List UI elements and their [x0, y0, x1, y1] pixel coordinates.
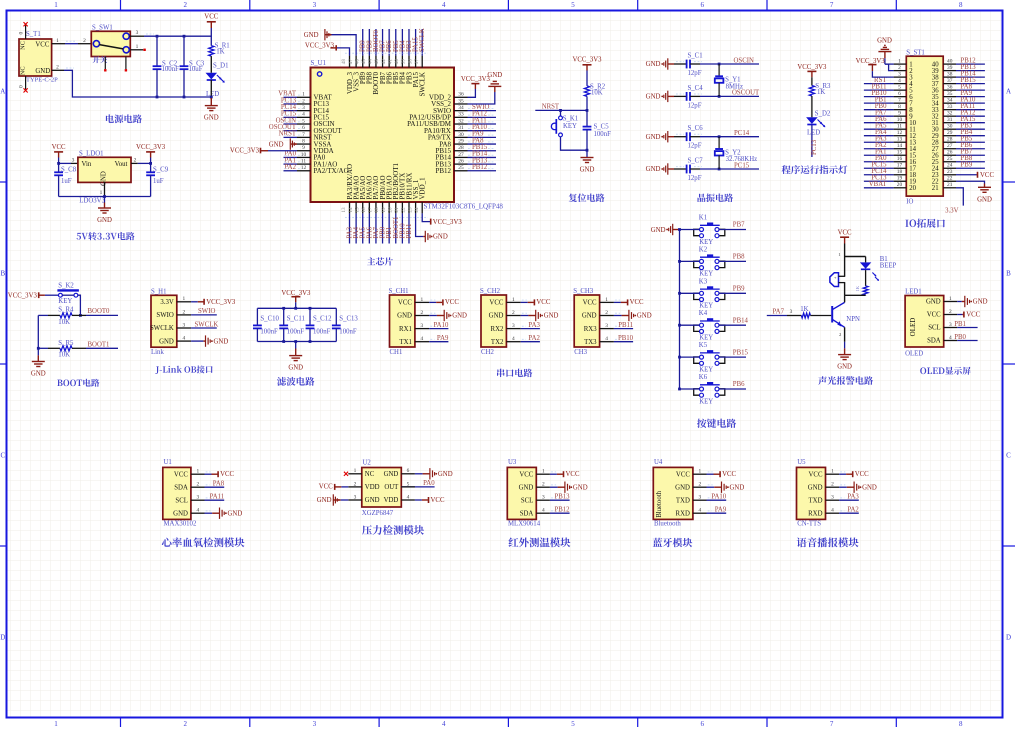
svg-text:40: 40 — [947, 59, 953, 65]
svg-text:GND: GND — [646, 94, 661, 101]
svg-text:39: 39 — [947, 65, 953, 71]
svg-text:PB7: PB7 — [733, 222, 745, 229]
svg-text:TXD: TXD — [809, 497, 823, 504]
svg-text:10K: 10K — [591, 89, 603, 96]
caption filter circuit — [277, 377, 314, 386]
filter rails — [257, 307, 336, 309]
svg-text:VCC: VCC — [519, 471, 533, 478]
S_CH1 pin4 PA9 — [429, 341, 448, 343]
module U3 MLX90614 — [507, 467, 536, 519]
svg-text:Vout: Vout — [115, 161, 128, 168]
svg-text:5: 5 — [571, 1, 575, 9]
svg-text:7: 7 — [898, 98, 901, 104]
emitter to ground — [844, 327, 846, 342]
caption IO expansion — [905, 219, 945, 228]
capacitor S_C10 100nF — [256, 308, 258, 325]
svg-text:NRST: NRST — [279, 131, 297, 138]
svg-text:100nF: 100nF — [339, 328, 357, 335]
svg-text:9: 9 — [898, 111, 901, 117]
svg-text:PA2/TX/AO: PA2/TX/AO — [314, 167, 349, 175]
connector S_CH1 — [390, 295, 415, 347]
svg-text:32.768KHz: 32.768KHz — [726, 156, 758, 163]
svg-text:K4: K4 — [699, 310, 708, 317]
svg-text:PA3: PA3 — [847, 494, 859, 501]
svg-text:S_C4: S_C4 — [688, 85, 704, 92]
svg-text:PA11: PA11 — [210, 494, 225, 501]
svg-text:1: 1 — [949, 296, 952, 302]
svg-text:5: 5 — [571, 720, 575, 727]
svg-text:S_ST1: S_ST1 — [906, 49, 925, 56]
svg-text:RX2: RX2 — [491, 326, 504, 333]
svg-text:1: 1 — [100, 190, 103, 196]
wire button to BOOT0 — [78, 295, 81, 315]
capacitor S_C7 12pF — [686, 165, 688, 174]
svg-text:4: 4 — [605, 336, 608, 342]
svg-text:VCC: VCC — [35, 42, 49, 49]
svg-text:VCC: VCC — [927, 312, 941, 319]
svg-text:3: 3 — [512, 323, 515, 329]
svg-text:RXD: RXD — [808, 510, 822, 517]
svg-text:6: 6 — [701, 720, 705, 727]
svg-text:SDA: SDA — [927, 338, 941, 345]
svg-text:GND: GND — [159, 338, 174, 345]
svg-text:SDA: SDA — [520, 510, 534, 517]
svg-text:PA7: PA7 — [773, 308, 785, 315]
svg-text:S_CH1: S_CH1 — [389, 288, 409, 295]
svg-text:VCC: VCC — [722, 471, 736, 478]
svg-text:GND: GND — [637, 313, 652, 320]
svg-text:4: 4 — [512, 336, 515, 342]
svg-text:GND: GND — [304, 32, 319, 39]
svg-text:7: 7 — [830, 1, 834, 9]
svg-text:29: 29 — [947, 130, 953, 136]
S_CH3 pin3 PB11 — [614, 328, 633, 330]
svg-text:PB9: PB9 — [733, 286, 745, 293]
svg-text:2: 2 — [83, 38, 86, 44]
caption 5V to 3.3V — [77, 232, 135, 240]
svg-text:100nF: 100nF — [287, 328, 305, 335]
svg-text:8: 8 — [959, 720, 963, 727]
svg-text:43: 43 — [374, 59, 380, 65]
svg-text:1: 1 — [542, 469, 545, 475]
caption bluetooth module — [653, 538, 693, 547]
svg-text:RX3: RX3 — [584, 326, 597, 333]
svg-text:2: 2 — [512, 310, 515, 316]
svg-text:13: 13 — [341, 207, 347, 213]
S_CH1 pin3 PA10 — [429, 328, 448, 330]
svg-text:2: 2 — [183, 720, 187, 727]
svg-text:2: 2 — [421, 310, 424, 316]
mcu pin47 VSS_3 ground — [332, 35, 357, 56]
mcu U1 STM32F103C8T6 — [311, 68, 455, 203]
svg-text:SWCLK: SWCLK — [419, 28, 426, 52]
svg-text:MAX30102: MAX30102 — [164, 521, 197, 528]
svg-text:KEY: KEY — [699, 239, 713, 246]
svg-text:8MHz: 8MHz — [726, 83, 743, 90]
svg-text:BOOT0: BOOT0 — [88, 308, 111, 315]
wire K3 to PB9 — [719, 292, 746, 294]
svg-text:U4: U4 — [654, 459, 663, 466]
S_CH2 pin4 PA2 — [521, 341, 540, 343]
svg-text:16: 16 — [897, 156, 903, 162]
wire button to bottom — [561, 137, 588, 150]
svg-text:GND: GND — [452, 313, 467, 320]
pushbutton S_K1 KEY — [560, 110, 562, 116]
wire T1 GND down to bottom rail — [52, 69, 64, 71]
svg-text:22: 22 — [401, 207, 407, 213]
svg-text:1uF: 1uF — [153, 178, 164, 185]
wire bus to K4 — [680, 324, 700, 326]
capacitor S_C3 10uF — [183, 36, 185, 66]
svg-text:100nF: 100nF — [313, 328, 331, 335]
svg-text:12: 12 — [897, 130, 903, 136]
svg-text:KEY: KEY — [699, 398, 713, 405]
svg-text:PB14: PB14 — [733, 317, 749, 324]
svg-text:GND: GND — [433, 234, 448, 241]
mcu pin23 VSS_1 ground — [416, 213, 424, 236]
resistor 1K base — [801, 313, 810, 318]
svg-text:8: 8 — [959, 1, 963, 9]
svg-text:GND: GND — [228, 510, 243, 517]
svg-text:1: 1 — [54, 720, 58, 727]
svg-text:PB9: PB9 — [961, 162, 973, 169]
svg-text:GND: GND — [31, 371, 46, 378]
svg-text:1: 1 — [136, 44, 139, 50]
svg-text:1: 1 — [197, 469, 200, 475]
ground GND crystal row — [667, 131, 669, 142]
svg-text:VCC: VCC — [489, 300, 503, 307]
svg-text:3: 3 — [197, 495, 200, 501]
svg-text:OUT: OUT — [384, 484, 399, 491]
ground GND keys — [672, 224, 674, 235]
svg-text:VCC_3V3: VCC_3V3 — [8, 292, 38, 299]
svg-text:23: 23 — [407, 207, 413, 213]
svg-text:BOOT1: BOOT1 — [88, 341, 110, 348]
svg-text:24: 24 — [947, 163, 953, 169]
svg-text:S_D2: S_D2 — [815, 111, 831, 118]
svg-text:20: 20 — [909, 185, 916, 192]
svg-text:GND: GND — [519, 484, 534, 491]
mcu pin48 VDD_3 power — [337, 48, 350, 56]
svg-text:21: 21 — [394, 207, 400, 213]
crystal S_Y2 32.768KHz — [718, 137, 720, 149]
resistor S_R4 10K — [38, 314, 48, 316]
svg-text:2: 2 — [949, 309, 952, 315]
svg-text:CH1: CH1 — [390, 349, 403, 356]
svg-text:10: 10 — [897, 117, 903, 123]
U2 pin1 NC — [348, 473, 362, 475]
svg-text:GND: GND — [646, 134, 661, 141]
svg-text:33: 33 — [947, 104, 953, 110]
svg-text:19: 19 — [897, 176, 903, 182]
svg-text:KEY: KEY — [699, 366, 713, 373]
svg-text:2: 2 — [183, 1, 187, 9]
svg-text:12pF: 12pF — [688, 143, 702, 150]
svg-text:VCC_3V3: VCC_3V3 — [136, 144, 166, 151]
capacitor S_C2 100nF — [156, 36, 158, 66]
svg-text:+: + — [834, 275, 837, 280]
wire bus to K3 — [680, 292, 700, 294]
svg-text:1K: 1K — [216, 48, 224, 55]
U2 pin6 GND — [401, 473, 415, 475]
wire LED to PC13 — [811, 125, 813, 158]
svg-text:VCC: VCC — [445, 299, 459, 306]
caption infrared module — [509, 537, 571, 547]
dashed marks top pins — [345, 52, 428, 54]
svg-text:4: 4 — [197, 508, 200, 514]
svg-text:45: 45 — [361, 59, 367, 65]
svg-text:S_CH3: S_CH3 — [573, 288, 594, 295]
header pin22 GND — [956, 181, 985, 183]
svg-text:VCC_3V3: VCC_3V3 — [461, 76, 491, 83]
svg-text:1uF: 1uF — [61, 178, 72, 185]
svg-text:K5: K5 — [699, 342, 708, 349]
svg-text:SCL: SCL — [928, 325, 940, 332]
svg-text:GND: GND — [646, 61, 661, 68]
bottom rail of LDO — [59, 196, 151, 198]
svg-text:3: 3 — [136, 30, 139, 36]
svg-text:VCC_3V3: VCC_3V3 — [797, 64, 827, 71]
mcu pin24 VDD_1 power — [422, 213, 430, 221]
svg-text:Link: Link — [151, 349, 164, 356]
svg-text:S_D1: S_D1 — [213, 62, 229, 69]
svg-text:4: 4 — [442, 720, 446, 727]
svg-text:SWIO: SWIO — [156, 312, 173, 319]
svg-text:5: 5 — [898, 85, 901, 91]
svg-text:TYPE-C-2P: TYPE-C-2P — [26, 76, 58, 83]
svg-text:42: 42 — [381, 59, 387, 65]
jlink pin3 SWCLK — [191, 327, 217, 329]
svg-text:GND: GND — [544, 313, 559, 320]
svg-text:RX1: RX1 — [399, 326, 412, 333]
svg-text:3: 3 — [949, 322, 952, 328]
wire K1 to PB7 — [719, 229, 746, 231]
svg-text:S_C13: S_C13 — [339, 316, 358, 323]
svg-text:1K: 1K — [855, 285, 860, 291]
svg-text:46: 46 — [354, 59, 360, 65]
svg-text:1: 1 — [54, 1, 58, 9]
wire K5 to PB15 — [719, 356, 746, 358]
svg-text:S_CH2: S_CH2 — [480, 288, 501, 295]
switch bottom stubs — [104, 57, 106, 70]
svg-text:NC: NC — [20, 41, 27, 50]
module U4 Bluetooth — [653, 467, 693, 519]
svg-text:17: 17 — [368, 207, 374, 213]
svg-text:VCC: VCC — [398, 300, 412, 307]
svg-text:GND: GND — [97, 217, 112, 224]
svg-text:MLX90614: MLX90614 — [508, 521, 541, 528]
svg-text:C: C — [1006, 452, 1011, 460]
svg-text:2: 2 — [831, 482, 834, 488]
svg-text:VCC: VCC — [583, 300, 597, 307]
svg-text:1: 1 — [182, 296, 185, 302]
svg-text:44: 44 — [368, 59, 374, 65]
svg-text:10uF: 10uF — [189, 66, 203, 73]
svg-text:S_R4: S_R4 — [58, 307, 74, 314]
svg-text:1: 1 — [831, 469, 834, 475]
mcu pin9 VDDA power — [268, 150, 297, 152]
svg-text:VCC: VCC — [220, 471, 234, 478]
svg-text:GND: GND — [730, 484, 745, 491]
svg-text:47: 47 — [348, 59, 354, 65]
wire bus to K6 — [680, 388, 700, 390]
svg-text:VCC: VCC — [536, 299, 550, 306]
svg-text:19: 19 — [381, 207, 387, 213]
svg-text:39: 39 — [401, 59, 407, 65]
alarm bottom node wire — [845, 294, 866, 296]
S_CH2 pin3 PA3 — [521, 328, 540, 330]
svg-text:PC13: PC13 — [811, 139, 818, 155]
ground GND of power circuit — [210, 98, 212, 106]
svg-text:37: 37 — [414, 59, 420, 65]
svg-text:PB11: PB11 — [406, 224, 413, 239]
svg-text:VCC: VCC — [838, 230, 852, 237]
svg-text:VCC: VCC — [319, 484, 333, 491]
svg-text:PC14: PC14 — [734, 130, 750, 137]
wire bus to K1 — [680, 229, 700, 231]
svg-text:U5: U5 — [797, 459, 806, 466]
svg-text:30: 30 — [947, 124, 953, 130]
svg-text:VCC: VCC — [980, 172, 994, 179]
svg-text:3: 3 — [898, 72, 901, 78]
svg-text:17: 17 — [897, 163, 903, 169]
S_CH3 pin1 VCC — [614, 301, 621, 303]
svg-text:VCC: VCC — [676, 471, 690, 478]
ground GND crystal row — [667, 163, 669, 174]
svg-text:2: 2 — [898, 65, 901, 71]
caption main chip — [367, 257, 393, 265]
svg-text:S_K2: S_K2 — [58, 282, 74, 289]
wire VCC to LDO Vin — [59, 162, 71, 164]
svg-text:LED1: LED1 — [905, 289, 922, 296]
capacitor S_C13 100nF — [335, 308, 337, 325]
svg-text:PA10: PA10 — [711, 494, 726, 501]
svg-text:PB12: PB12 — [554, 507, 570, 514]
svg-text:GND: GND — [288, 365, 303, 372]
svg-text:PA2: PA2 — [847, 507, 859, 514]
ground GND filter — [295, 342, 297, 349]
U2 pin3 GND — [348, 499, 362, 501]
svg-text:SWCLK: SWCLK — [419, 72, 427, 97]
svg-text:3: 3 — [421, 323, 424, 329]
caption J-Link OB — [155, 365, 212, 373]
capacitor S_C5 100nF — [586, 110, 588, 126]
ground GND boot — [37, 348, 39, 355]
svg-text:GND: GND — [646, 166, 661, 173]
S_CH2 pin1 VCC — [521, 301, 528, 303]
capacitor S_C11 100nF — [283, 308, 285, 325]
mcu pin36 VDD_2 power — [468, 89, 476, 97]
svg-text:SDA: SDA — [174, 484, 188, 491]
crystal S_Y1 8MHz — [718, 64, 720, 76]
svg-text:GND: GND — [862, 484, 877, 491]
svg-text:34: 34 — [947, 98, 953, 104]
caption OLED display — [920, 367, 971, 375]
svg-text:3: 3 — [313, 720, 317, 727]
svg-text:PA9: PA9 — [437, 335, 449, 342]
caption program run indicator — [782, 165, 848, 174]
svg-text:PB6: PB6 — [733, 381, 745, 388]
svg-text:3: 3 — [699, 495, 702, 501]
svg-text:NRST: NRST — [542, 103, 560, 110]
capacitor S_C8 1uF — [58, 163, 60, 172]
oled pin3 PB1 — [957, 327, 977, 329]
svg-text:VCC: VCC — [566, 471, 580, 478]
U2 pin5 OUT PA0 — [401, 486, 434, 488]
svg-text:1: 1 — [512, 297, 515, 303]
svg-text:B: B — [0, 270, 5, 278]
capacitor S_C1 12pF — [686, 60, 688, 69]
svg-text:U1: U1 — [164, 459, 172, 466]
T1 top pin no-connect — [25, 25, 27, 39]
svg-text:35: 35 — [947, 91, 953, 97]
svg-text:4: 4 — [421, 336, 424, 342]
wire K6 to PB6 — [719, 388, 746, 390]
capacitor S_C9 1uF — [150, 163, 152, 172]
svg-text:VDD: VDD — [384, 497, 399, 504]
svg-text:B: B — [1006, 270, 1011, 278]
svg-text:26: 26 — [947, 150, 953, 156]
connector S_H1 Link — [151, 295, 177, 347]
caption key circuit — [697, 419, 736, 428]
svg-text:KEY: KEY — [699, 303, 713, 310]
svg-text:GND: GND — [675, 484, 690, 491]
svg-text:GND: GND — [926, 299, 941, 306]
svg-text:VCC: VCC — [174, 471, 188, 478]
svg-text:13: 13 — [897, 137, 903, 143]
svg-text:PB1: PB1 — [954, 321, 966, 328]
resistor 1K below alarm LED — [865, 270, 867, 286]
svg-text:VCC: VCC — [966, 312, 980, 319]
module U2 XGZP6847 pressure — [362, 468, 402, 508]
svg-text:GND: GND — [214, 338, 229, 345]
wire K2 to PB8 — [719, 260, 746, 262]
switch caption kaiguan — [92, 56, 107, 63]
svg-text:48: 48 — [341, 59, 347, 65]
svg-text:SCL: SCL — [521, 497, 533, 504]
svg-text:OLED: OLED — [905, 350, 923, 357]
S_CH1 pin1 VCC — [429, 301, 436, 303]
svg-text:S_C1: S_C1 — [688, 53, 703, 60]
svg-text:GND: GND — [204, 115, 219, 122]
svg-text:6: 6 — [407, 468, 410, 474]
capacitor S_C12 100nF — [309, 308, 311, 325]
svg-text:8: 8 — [898, 104, 901, 110]
svg-text:A: A — [0, 88, 5, 96]
mcu pin35 VSS_2 ground — [468, 92, 495, 104]
svg-text:LED: LED — [807, 130, 820, 137]
svg-text:NC: NC — [365, 471, 375, 478]
caption crystal circuit — [698, 193, 734, 202]
switch S_SW1 — [91, 31, 130, 56]
svg-text:VCC: VCC — [809, 471, 823, 478]
svg-text:100nF: 100nF — [162, 66, 180, 73]
svg-text:GND: GND — [438, 471, 453, 478]
svg-text:S_C12: S_C12 — [313, 316, 332, 323]
svg-text:GND: GND — [489, 313, 504, 320]
wire bus to K5 — [680, 356, 700, 358]
ground GND crystal row — [667, 58, 669, 69]
svg-text:VDD: VDD — [365, 484, 380, 491]
wire bus to K2 — [680, 260, 700, 262]
wire T1 VCC to switch — [52, 43, 65, 45]
capacitor S_C6 12pF — [686, 132, 688, 141]
transistor Q1 NPN — [831, 306, 833, 323]
svg-text:S_R5: S_R5 — [58, 340, 74, 347]
svg-text:15: 15 — [897, 150, 903, 156]
caption alarm circuit — [818, 376, 873, 385]
svg-text:TX1: TX1 — [399, 339, 411, 346]
